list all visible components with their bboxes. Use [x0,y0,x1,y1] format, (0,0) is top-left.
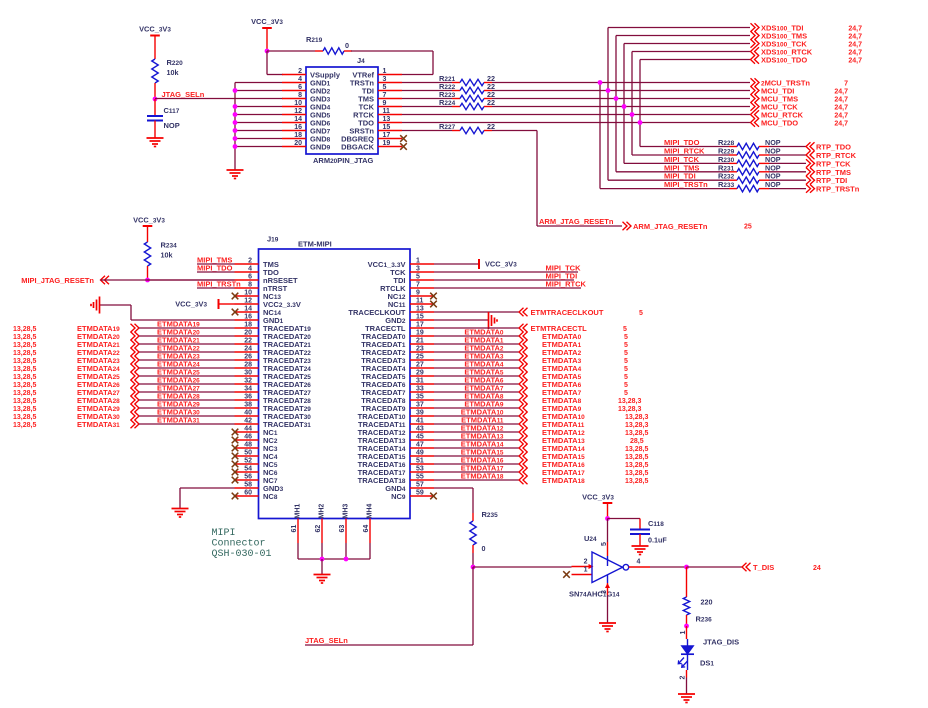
resistor R220 10k [152,58,183,83]
J4 pin 17 DBGREQ [341,132,402,144]
net label MIPI_TRSTn [197,280,241,289]
port ETMDATA19 (left) [13,320,235,334]
wire/port ETMDATA8 (right) [434,392,641,406]
svg-text:13,28,5: 13,28,5 [13,326,36,333]
wire MIPI_RTCK [632,147,737,156]
J4 pin 16 GND7 [282,124,331,136]
net label MIPI_TDO [197,264,233,273]
svg-text:10: 10 [244,290,252,297]
svg-text:2: 2 [248,258,252,265]
wire MIPI_TCK [624,155,737,164]
svg-text:0.1uF: 0.1uF [648,536,667,545]
label MIPI Connector QSH-030-01 [212,528,272,560]
svg-text:28: 28 [244,362,252,369]
wire J4 TMS to R223 [402,98,460,100]
svg-text:13,28,5: 13,28,5 [625,478,648,485]
svg-text:JTAG_SELn: JTAG_SELn [305,636,348,645]
connector J4 ARM20PIN_JTAG body [306,56,378,165]
wire/port ETMDATA3 (right) [434,352,628,366]
svg-text:12: 12 [244,298,252,305]
svg-text:13,28,3: 13,28,3 [625,422,648,429]
node GND bus junction pin 16 [233,128,238,133]
wire J4 ground bus [235,83,282,171]
svg-text:22: 22 [487,98,495,107]
wire LED cathode down [680,654,688,693]
svg-text:MIPI_TDO: MIPI_TDO [197,264,233,273]
J19 pin 32 TRACEDAT26 [235,378,312,390]
no-connect X J4 pin17 [400,135,407,142]
wire junction to U24 input [473,564,594,569]
svg-text:13,28,5: 13,28,5 [13,390,36,397]
port MCU_TDO [751,118,849,127]
U24 pin3 stub [601,575,610,623]
svg-text:NC9: NC9 [391,492,406,501]
svg-text:20: 20 [294,140,302,147]
J19 pin 5 TDI [393,274,434,286]
svg-text:23: 23 [416,346,424,353]
wire/port RTP_TMS [759,168,851,177]
svg-text:13,28,5: 13,28,5 [625,446,648,453]
svg-text:53: 53 [416,466,424,473]
svg-text:37: 37 [416,402,424,409]
svg-text:MIPI_TRSTn: MIPI_TRSTn [664,180,708,189]
svg-text:5: 5 [624,334,628,341]
port ETMDATA21 (left) [13,336,235,350]
wire VCC to pin12 [219,303,235,305]
LED DS1 [678,638,739,668]
wire VCC branch to J4 pin2 [267,51,283,75]
wire R227 right [484,130,537,132]
wire VCC down [266,28,268,51]
svg-text:SN74AHC1G14: SN74AHC1G14 [569,590,620,599]
wire R223 to bus [484,98,750,100]
J19 pin 56 NC7 [235,474,278,486]
wire J4 TDO row [402,122,750,124]
resistor R235 0 [470,510,498,553]
J4 pin 13 TDO [358,116,402,128]
wire/port ETMDATA16 (right) [434,456,648,470]
svg-text:7: 7 [416,282,420,289]
svg-text:R220: R220 [167,58,184,67]
svg-text:VCC_3V3: VCC_3V3 [133,216,165,225]
svg-text:1: 1 [680,631,687,635]
svg-text:56: 56 [244,474,252,481]
svg-text:10: 10 [294,100,302,107]
svg-text:2: 2 [298,68,302,75]
capacitor C118 0.1uF [630,519,667,545]
J19 pin 35 TRACEDAT8 [361,394,434,406]
U24 pin1 stub with X [563,567,592,578]
power symbol VCC_3V3 (J19 pin12) [175,299,218,309]
wire/port ETMDATA10 (right) [434,408,648,422]
svg-text:20: 20 [244,330,252,337]
svg-text:R224: R224 [439,98,456,107]
port ETMDATA25 (left) [13,368,235,382]
wire MIPI_TDI [608,172,737,181]
wire MH4 down [369,543,371,559]
J19 pin 54 NC6 [235,466,278,478]
port MCU_TMS [751,94,849,103]
svg-text:24: 24 [244,346,252,353]
svg-text:1: 1 [584,567,588,574]
resistor R229 NOP [718,147,781,159]
wire MIPI_TMS [197,263,235,265]
resistor R224 22 [439,98,495,110]
svg-text:22: 22 [487,122,495,131]
svg-text:32: 32 [244,378,252,385]
svg-text:5: 5 [624,358,628,365]
svg-text:59: 59 [416,490,424,497]
J19 pin 43 TRACEDAT12 [358,426,434,438]
svg-text:NOP: NOP [765,180,781,189]
wire MIPI_TDI [434,272,577,281]
U24 pin2 number [584,559,588,566]
wire C117 to ground [154,121,156,139]
no-connect X J19 pin 46 [232,437,239,444]
J4 pin 18 GND8 [282,132,331,144]
wire MH bus to ground [321,559,323,574]
wire MIPI_TMS [616,163,737,172]
svg-text:13,28,5: 13,28,5 [13,398,36,405]
svg-text:19: 19 [416,330,424,337]
port ETMDATA30 (left) [13,408,235,422]
J19 pin 19 TRACEDAT0 [361,330,434,342]
wire J4 TRSTn to R221 [402,82,460,84]
svg-text:44: 44 [244,426,252,433]
node MH3 junction [344,557,349,562]
node RTCK junction [630,112,635,117]
svg-text:9: 9 [416,290,420,297]
J19 pin 20 TRACEDAT20 [235,330,312,342]
svg-text:MH1: MH1 [295,504,302,519]
svg-text:XDS100_TDO: XDS100_TDO [761,56,807,65]
ground (J4 bus) [227,170,244,179]
J19 pin 22 TRACEDAT21 [235,338,312,350]
J19 pin 7 RTCLK [380,282,434,294]
wire to T_DIS [687,566,743,568]
node VCC/R219 junction [265,49,270,54]
wire ARM_JTAG_RESETn vertical [536,131,538,227]
op-amp U24 SN74AHC1G14 inverter [569,534,629,599]
J19 pin 52 NC5 [235,458,278,470]
J19 pin 37 TRACEDAT9 [361,402,434,414]
port MCU_TCK [751,102,849,111]
node GND bus junction pin 20 [233,144,238,149]
wire GND bus to J4 pin 16 [235,130,282,132]
wire GND2 [434,319,489,321]
resistor R232 NOP [718,172,781,184]
svg-text:36: 36 [244,394,252,401]
svg-text:U24: U24 [584,534,597,543]
svg-text:4: 4 [248,266,252,273]
wire/port RTP_TDI [759,176,847,185]
power symbol VCC_3V3 (J19 pin1) [479,259,517,269]
svg-text:3: 3 [416,266,420,273]
J19 pin 23 TRACEDAT2 [361,346,434,358]
port 2MCU_TRSTn [751,78,849,87]
svg-text:13,28,5: 13,28,5 [625,470,648,477]
wire GND bus to J4 pin 14 [235,122,282,124]
wire TDO vertical [639,60,641,147]
wire VCC down to junction [607,503,609,519]
svg-text:45: 45 [416,434,424,441]
U24 pin4 output [629,559,687,568]
J19 pin 8 nTRST [235,282,288,294]
svg-text:4: 4 [298,76,302,83]
J19 pin 30 TRACEDAT25 [235,370,312,382]
J19 pin 13 TRACECLKOUT [348,306,434,318]
J19 pin 61 MH1 [291,504,302,543]
J19 pin 34 TRACEDAT27 [235,386,312,398]
svg-text:18: 18 [294,132,302,139]
wire VCC to R220 [154,36,156,60]
port ARM_JTAG_RESETn [623,222,752,231]
wire MH ground bus [298,558,370,560]
svg-text:13,28,5: 13,28,5 [13,334,36,341]
svg-text:MIPI_TRSTn: MIPI_TRSTn [197,280,241,289]
svg-text:15: 15 [416,314,424,321]
svg-text:MIPI_JTAG_RESETn: MIPI_JTAG_RESETn [21,276,94,285]
svg-text:22: 22 [244,338,252,345]
svg-text:R233: R233 [718,180,735,189]
no-connect X J19 pin11 [430,301,437,308]
port ETMDATA31 (left) [13,416,235,430]
svg-text:15: 15 [383,124,391,131]
wire/port ETMDATA15 (right) [434,448,648,462]
port MCU_TDI [751,86,849,95]
J19 pin 11 NC11 [388,298,434,310]
svg-text:MIPI_RTCK: MIPI_RTCK [546,280,587,289]
node R235/JTAG_SELn junction [471,565,476,570]
wire/port ETMDATA0 (right) [434,328,628,342]
wire ARM_JTAG_RESETn horizontal [537,225,622,227]
J19 pin 39 TRACEDAT10 [358,410,434,422]
svg-text:55: 55 [416,474,424,481]
svg-text:DBGACK: DBGACK [341,143,374,152]
svg-text:GND9: GND9 [310,143,331,152]
ground (J19 GND1, left-pointing) [91,297,100,314]
svg-text:13,28,5: 13,28,5 [13,374,36,381]
net label MIPI_TMS [197,256,232,265]
wire junction to C117 [154,99,156,116]
port ETMDATA29 (left) [13,400,235,414]
svg-text:13,28,3: 13,28,3 [618,406,641,413]
J19 pin 24 TRACEDAT22 [235,346,312,358]
J19 pin 15 GND2 [385,314,434,326]
wire/port XDS100_TCK [624,39,862,48]
wire J4 SRSTn to R227 [402,130,460,132]
node GND bus junction pin 18 [233,136,238,141]
svg-text:16: 16 [244,314,252,321]
ground (J19 GND3) [172,509,189,518]
J4 pin 19 DBGACK [341,140,402,152]
svg-text:1: 1 [416,258,420,265]
svg-text:ETMTRACECLKOUT: ETMTRACECLKOUT [531,308,604,317]
wire/port ETMDATA4 (right) [434,360,628,374]
J4 pin 4 GND1 [282,76,331,88]
wire/port RTP_TDO [759,142,851,151]
ground (C117) [147,138,164,147]
wire JTAG_SELn bottom [305,636,473,645]
port ETMDATA20 (left) [13,328,235,342]
svg-text:13: 13 [383,116,391,123]
svg-text:MCU_TDO: MCU_TDO [761,119,798,128]
svg-text:0: 0 [345,41,349,50]
svg-text:14: 14 [294,116,302,123]
svg-text:VCC_3V3: VCC_3V3 [175,300,207,309]
wire/port ETMDATA6 (right) [434,376,628,390]
svg-text:16: 16 [294,124,302,131]
svg-text:40: 40 [244,410,252,417]
wire/port ETMDATA2 (right) [434,344,628,358]
svg-text:ETMDATA31: ETMDATA31 [157,416,200,425]
J19 pin 58 GND3 [235,482,284,494]
J19 pin 41 TRACEDAT11 [358,418,434,430]
J19 pin 17 TRACECTL [365,322,434,334]
resistor R222 22 [439,82,495,94]
wire TCK vertical [623,44,625,164]
ground (MH pins) [314,575,331,584]
J4 pin 3 TRSTn [350,76,402,88]
svg-text:NOP: NOP [164,121,180,130]
node TRSTn junction [598,80,603,85]
svg-text:R236: R236 [696,615,713,624]
wire/port RTP_RTCK [759,151,857,160]
wire/port XDS100_RTCK [632,47,862,56]
svg-text:24,7: 24,7 [834,97,848,104]
svg-text:13: 13 [416,306,424,313]
node LED junction [684,624,689,629]
wire GND bus to J4 pin 12 [235,114,282,116]
svg-text:ARM_JTAG_RESETn: ARM_JTAG_RESETn [539,217,614,226]
svg-text:J4: J4 [357,56,365,65]
svg-text:63: 63 [339,525,346,533]
svg-text:R227: R227 [439,122,456,131]
svg-text:2: 2 [680,676,687,680]
svg-text:13,28,5: 13,28,5 [13,342,36,349]
svg-text:31: 31 [416,378,424,385]
wire MIPI_TRSTn [197,287,235,289]
svg-text:57: 57 [416,482,424,489]
svg-text:7: 7 [383,92,387,99]
J19 pin 46 NC2 [235,434,278,446]
J4 pin 7 TMS [358,92,402,104]
svg-text:R235: R235 [482,510,499,519]
wire R220 to junction [154,83,156,99]
port MIPI_JTAG_RESETn [21,276,109,285]
svg-text:ETM-MIPI: ETM-MIPI [298,240,332,249]
svg-text:QSH-030-01: QSH-030-01 [212,549,272,560]
J19 pin 48 NC3 [235,442,278,454]
ground (C118) [632,546,649,555]
svg-text:24,7: 24,7 [848,58,862,65]
svg-text:7: 7 [844,81,848,88]
port ETMDATA23 (left) [13,352,235,366]
wire VCC to R234 [147,226,149,242]
J4 pin 1 VTRef [352,68,402,80]
svg-text:VCC_3V3: VCC_3V3 [582,493,614,502]
svg-text:18: 18 [244,322,252,329]
svg-text:6: 6 [298,84,302,91]
port ETMDATA24 (left) [13,360,235,374]
wire MH2 down [321,543,323,559]
no-connect X J19 pin59 [430,493,437,500]
svg-text:35: 35 [416,394,424,401]
wire/port XDS100_TDO [640,55,862,64]
wire/port ETMDATA5 (right) [434,368,628,382]
J4 pin 9 TCK [359,100,402,112]
J4 pin 6 GND2 [282,84,331,96]
port ETMDATA22 (left) [13,344,235,358]
J4 pin 12 GND5 [282,108,331,120]
svg-text:ETMDATA18: ETMDATA18 [461,472,504,481]
svg-text:41: 41 [416,418,424,425]
J19 pin 51 TRACEDAT16 [358,458,434,470]
svg-text:11: 11 [383,108,391,115]
svg-text:34: 34 [244,386,252,393]
wire R224 to bus [484,106,750,108]
wire RTCK vertical [631,52,633,156]
svg-text:43: 43 [416,426,424,433]
J19 pin 27 TRACEDAT4 [361,362,434,374]
J19 pin 3 TCK [390,266,434,278]
port T_DIS [742,563,821,572]
svg-text:30: 30 [244,370,252,377]
power symbol VCC_3V3 (above R234) [133,216,165,227]
resistor R219 0 [306,35,349,54]
svg-text:220: 220 [701,598,713,607]
wire J4 TCK to R224 [402,106,460,108]
svg-text:DS1: DS1 [700,659,714,668]
J19 pin 36 TRACEDAT28 [235,394,312,406]
J4 pin 10 GND4 [282,100,331,112]
wire R236 to LED junction [686,615,688,626]
svg-text:13,28,5: 13,28,5 [625,430,648,437]
J19 pin 12 VCC2_3.3V [235,298,301,310]
no-connect X J19 pin 48 [232,445,239,452]
J19 pin 55 TRACEDAT18 [358,474,434,486]
port ETMDATA26 (left) [13,376,235,390]
wire J4 TDI to R222 [402,90,460,92]
wire/port RTP_TRSTn [759,184,860,193]
power symbol VCC_3V3 (top-left) [139,25,171,36]
wire J4 RTCK row [402,114,750,116]
wire GND bus to J4 pin 6 [235,90,282,92]
wire R221 to bus [484,82,750,84]
node JTAG_SELn junction [153,97,158,102]
svg-text:28,5: 28,5 [630,438,644,445]
svg-text:58: 58 [244,482,252,489]
svg-text:29: 29 [416,370,424,377]
J19 pin 53 TRACEDAT17 [358,466,434,478]
svg-text:24,7: 24,7 [848,26,862,33]
wire/port ETMDATA11 (right) [434,416,648,430]
node GND bus junction pin 14 [233,120,238,125]
J19 pin 62 MH2 [315,504,326,543]
svg-text:MH3: MH3 [343,504,350,519]
J4 pin 14 GND6 [282,116,331,128]
no-connect X J19 pin 54 [232,469,239,476]
svg-text:24,7: 24,7 [834,121,848,128]
svg-text:42: 42 [244,418,252,425]
svg-text:14: 14 [244,306,252,313]
wire R222 to bus [484,90,750,92]
svg-text:VCC_3V3: VCC_3V3 [485,260,517,269]
J4 pin 15 SRSTn [349,124,402,136]
svg-text:9: 9 [383,100,387,107]
node GND bus junction pin 12 [233,112,238,117]
svg-text:17: 17 [416,322,424,329]
